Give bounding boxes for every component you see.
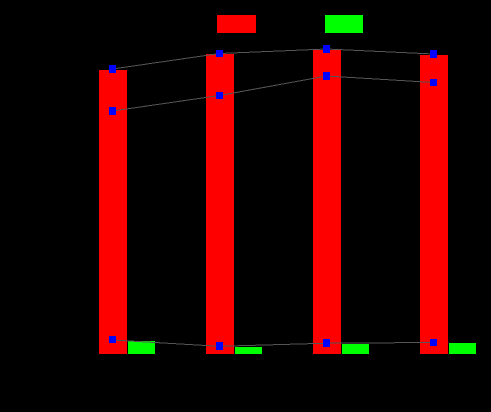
marker T4 (430, 50, 437, 58)
bottom line series (113, 340, 434, 346)
marker B2 (216, 342, 223, 350)
legend red swatch (217, 15, 256, 33)
middle line series (113, 76, 434, 111)
red bar 4 (420, 55, 448, 354)
marker B4 (430, 339, 437, 346)
marker B1 (109, 336, 116, 343)
green bar 3 (342, 344, 369, 354)
marker M4 (430, 79, 437, 86)
red bar 1 (99, 70, 127, 354)
legend green swatch (325, 15, 363, 33)
marker M2 (216, 92, 223, 99)
red bar 2 (206, 54, 234, 354)
marker M3 (323, 72, 330, 80)
marker T3 (323, 45, 330, 53)
marker T2 (216, 50, 223, 57)
green bar 4 (449, 343, 476, 354)
marker B3 (323, 339, 330, 347)
marker M1 (109, 107, 116, 115)
green bar 2 (235, 347, 262, 354)
green bar 1 (128, 341, 155, 354)
red bar 3 (313, 50, 341, 354)
marker T1 (109, 65, 116, 73)
top line series (113, 49, 434, 69)
